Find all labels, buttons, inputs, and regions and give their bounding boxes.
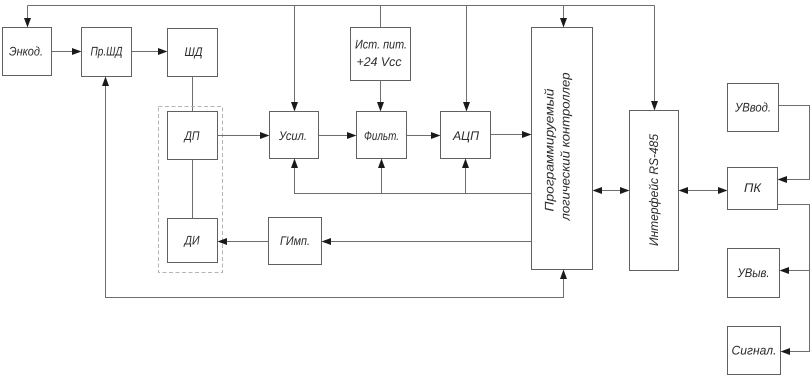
wire bottom feedback Пр.ШД ПЛК bbox=[102, 77, 567, 298]
wire top power rail bbox=[28, 5, 655, 7]
wire АЦП to ПЛК bbox=[491, 131, 532, 138]
block Фильт bbox=[357, 112, 407, 159]
wire ШД to ДП mechanical link bbox=[192, 77, 194, 112]
svg-text:ДИ: ДИ bbox=[183, 234, 200, 248]
svg-text:ПК: ПК bbox=[744, 181, 762, 195]
svg-text:+24 Vcc: +24 Vcc bbox=[357, 55, 403, 69]
svg-text:ШД: ШД bbox=[185, 45, 203, 59]
svg-text:УВыв.: УВыв. bbox=[737, 266, 770, 280]
svg-text:Усил.: Усил. bbox=[278, 129, 307, 143]
block Сигнал bbox=[728, 327, 781, 375]
wire ДП to Усил bbox=[218, 132, 270, 139]
wire ДП to ДИ link bbox=[192, 160, 194, 219]
svg-text:Пр.ШД: Пр.ШД bbox=[91, 45, 123, 59]
block УВвод bbox=[728, 84, 779, 132]
block Пр.ШД bbox=[82, 28, 132, 77]
block ГИмп bbox=[269, 218, 322, 265]
wire rail drop to АЦП bbox=[463, 6, 470, 112]
svg-text:ГИмп.: ГИмп. bbox=[280, 234, 310, 248]
svg-text:логический контроллер: логический контроллер bbox=[559, 72, 573, 221]
block Ист.пит +24 Vcc bbox=[351, 28, 411, 81]
block УВыв bbox=[728, 249, 780, 298]
svg-text:Программируемый: Программируемый bbox=[543, 88, 557, 211]
wire Энкод to Пр.ШД bbox=[52, 48, 82, 55]
block ПЛК Программируемый логический контроллер bbox=[532, 28, 593, 270]
wire rail drop to Интерфейс RS-485 bbox=[651, 6, 658, 111]
wire rail drop to Энкод bbox=[24, 6, 31, 28]
svg-text:Фильт.: Фильт. bbox=[364, 129, 399, 143]
block ДП bbox=[168, 112, 218, 160]
wire Ист.пит to rail bbox=[380, 6, 382, 28]
wire Усил to Фильт bbox=[319, 132, 357, 139]
block Усил bbox=[270, 112, 319, 159]
svg-text:Ист. пит.: Ист. пит. bbox=[355, 38, 407, 52]
block АЦП bbox=[441, 112, 491, 159]
wire ПЛК to ГИмп bbox=[322, 238, 532, 245]
block Интерфейс RS-485 bbox=[630, 111, 679, 271]
wire rail drop to ПЛК bbox=[560, 6, 567, 28]
wire Фильт to АЦП bbox=[407, 132, 441, 139]
wire Ист.пит to Фильт bbox=[377, 81, 384, 112]
wire ГИмп to ДИ bbox=[218, 238, 269, 245]
wire УВвод to ПК bbox=[778, 106, 810, 184]
svg-text:УВвод.: УВвод. bbox=[734, 101, 771, 115]
svg-text:Энкод.: Энкод. bbox=[9, 45, 43, 59]
svg-text:ДП: ДП bbox=[183, 129, 200, 143]
block ПК bbox=[728, 168, 778, 210]
wire RS-485 to ПК bidirectional bbox=[679, 187, 728, 194]
wire rail drop to Усил bbox=[291, 6, 298, 112]
block ШД bbox=[168, 29, 218, 77]
dashed group box sensors bbox=[159, 107, 223, 273]
svg-text:Интерфейс RS-485: Интерфейс RS-485 bbox=[647, 134, 661, 246]
svg-text:Сигнал.: Сигнал. bbox=[732, 344, 777, 358]
svg-text:АЦП: АЦП bbox=[452, 129, 480, 143]
wire ПЛК to RS-485 bidirectional bbox=[593, 187, 630, 194]
block ДИ bbox=[168, 219, 218, 263]
wire ПК to УВыв and Сигнал bbox=[778, 205, 810, 356]
wire ПЛК feedback to Усил Фильт АЦП bbox=[291, 159, 532, 194]
block Энкод bbox=[3, 28, 52, 76]
wire Пр.ШД to ШД bbox=[132, 48, 168, 55]
